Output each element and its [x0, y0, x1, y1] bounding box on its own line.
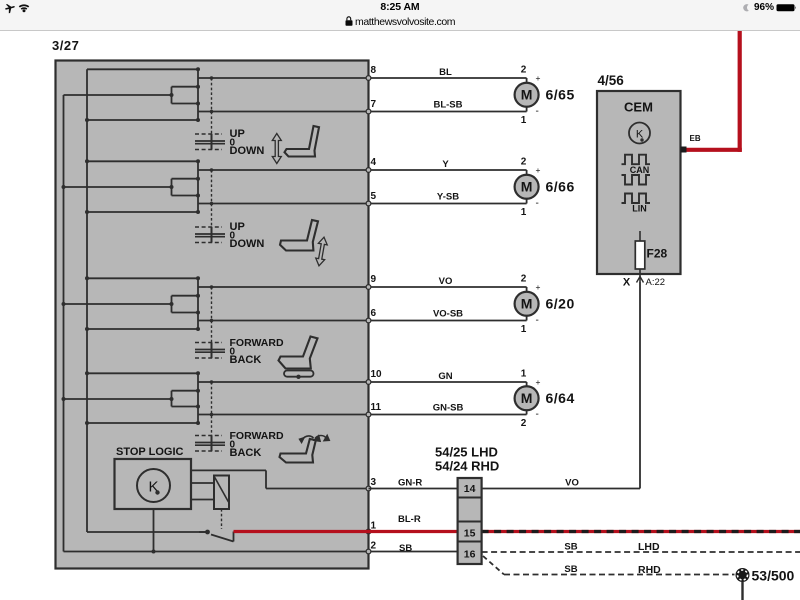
- svg-text:VO: VO: [439, 276, 453, 287]
- svg-text:1: 1: [521, 324, 527, 335]
- svg-text:54/24 RHD: 54/24 RHD: [435, 459, 499, 474]
- svg-text:DOWN: DOWN: [230, 145, 265, 157]
- svg-text:53/500: 53/500: [752, 568, 795, 584]
- svg-text:BACK: BACK: [230, 354, 262, 366]
- svg-text:1: 1: [521, 369, 527, 380]
- svg-text:GN-SB: GN-SB: [433, 403, 464, 414]
- svg-text:5: 5: [371, 191, 377, 202]
- svg-text:-: -: [536, 198, 539, 209]
- svg-text:-: -: [536, 409, 539, 420]
- svg-text:1: 1: [371, 521, 377, 532]
- svg-text:1: 1: [521, 207, 527, 218]
- svg-text:VO: VO: [565, 478, 579, 489]
- svg-text:2: 2: [521, 418, 527, 429]
- svg-text:SB: SB: [399, 543, 412, 554]
- svg-text:6: 6: [371, 308, 377, 319]
- svg-text:Y-SB: Y-SB: [437, 192, 459, 203]
- svg-text:11: 11: [371, 402, 382, 413]
- svg-text:14: 14: [464, 483, 476, 495]
- svg-text:FORWARD: FORWARD: [230, 337, 284, 349]
- svg-text:M: M: [521, 295, 533, 311]
- svg-text:10: 10: [371, 369, 383, 380]
- svg-text:6/66: 6/66: [546, 178, 575, 194]
- svg-text:SB: SB: [564, 542, 577, 553]
- svg-text:3: 3: [371, 477, 377, 488]
- svg-text:54/25 LHD: 54/25 LHD: [435, 445, 498, 460]
- svg-text:Y: Y: [442, 159, 449, 170]
- svg-text:6/65: 6/65: [546, 86, 575, 102]
- svg-text:1: 1: [521, 115, 527, 126]
- svg-text:X: X: [623, 277, 631, 289]
- svg-text:-: -: [536, 106, 539, 117]
- svg-text:F28: F28: [647, 247, 668, 261]
- svg-text:FORWARD: FORWARD: [230, 430, 284, 442]
- svg-text:CEM: CEM: [624, 100, 653, 115]
- svg-text:8: 8: [371, 65, 377, 76]
- svg-text:BL: BL: [439, 67, 452, 78]
- svg-text:A:22: A:22: [646, 277, 666, 288]
- svg-text:16: 16: [464, 549, 476, 561]
- svg-text:2: 2: [371, 541, 377, 552]
- svg-text:BACK: BACK: [230, 447, 262, 459]
- svg-text:+: +: [536, 377, 541, 387]
- svg-text:2: 2: [521, 274, 527, 285]
- svg-text:2: 2: [521, 65, 527, 76]
- svg-text:RHD: RHD: [638, 564, 661, 576]
- svg-text:GN: GN: [438, 371, 452, 382]
- svg-text:+: +: [536, 73, 541, 83]
- svg-text:15: 15: [464, 528, 476, 540]
- svg-text:2: 2: [521, 157, 527, 168]
- svg-text:VO-SB: VO-SB: [433, 309, 463, 320]
- svg-text:+: +: [536, 282, 541, 292]
- svg-text:CAN: CAN: [630, 165, 650, 175]
- svg-text:3/27: 3/27: [52, 38, 79, 53]
- svg-text:M: M: [521, 178, 533, 194]
- svg-text:EB: EB: [690, 134, 701, 143]
- svg-text:4/56: 4/56: [598, 73, 625, 88]
- svg-text:LHD: LHD: [638, 541, 660, 553]
- svg-text:M: M: [521, 86, 533, 102]
- svg-text:9: 9: [371, 274, 377, 285]
- svg-text:SB: SB: [564, 564, 577, 575]
- svg-text:-: -: [536, 315, 539, 326]
- svg-text:+: +: [536, 165, 541, 175]
- svg-text:LIN: LIN: [632, 204, 647, 214]
- svg-text:7: 7: [371, 99, 377, 110]
- svg-text:6/64: 6/64: [546, 390, 575, 406]
- svg-text:STOP LOGIC: STOP LOGIC: [116, 446, 183, 458]
- svg-text:GN-R: GN-R: [398, 478, 422, 489]
- svg-text:BL-SB: BL-SB: [433, 100, 462, 111]
- svg-text:4: 4: [371, 157, 377, 168]
- svg-text:DOWN: DOWN: [230, 238, 265, 250]
- svg-text:M: M: [521, 390, 533, 406]
- svg-text:BL-R: BL-R: [398, 514, 421, 525]
- svg-text:6/20: 6/20: [546, 295, 575, 311]
